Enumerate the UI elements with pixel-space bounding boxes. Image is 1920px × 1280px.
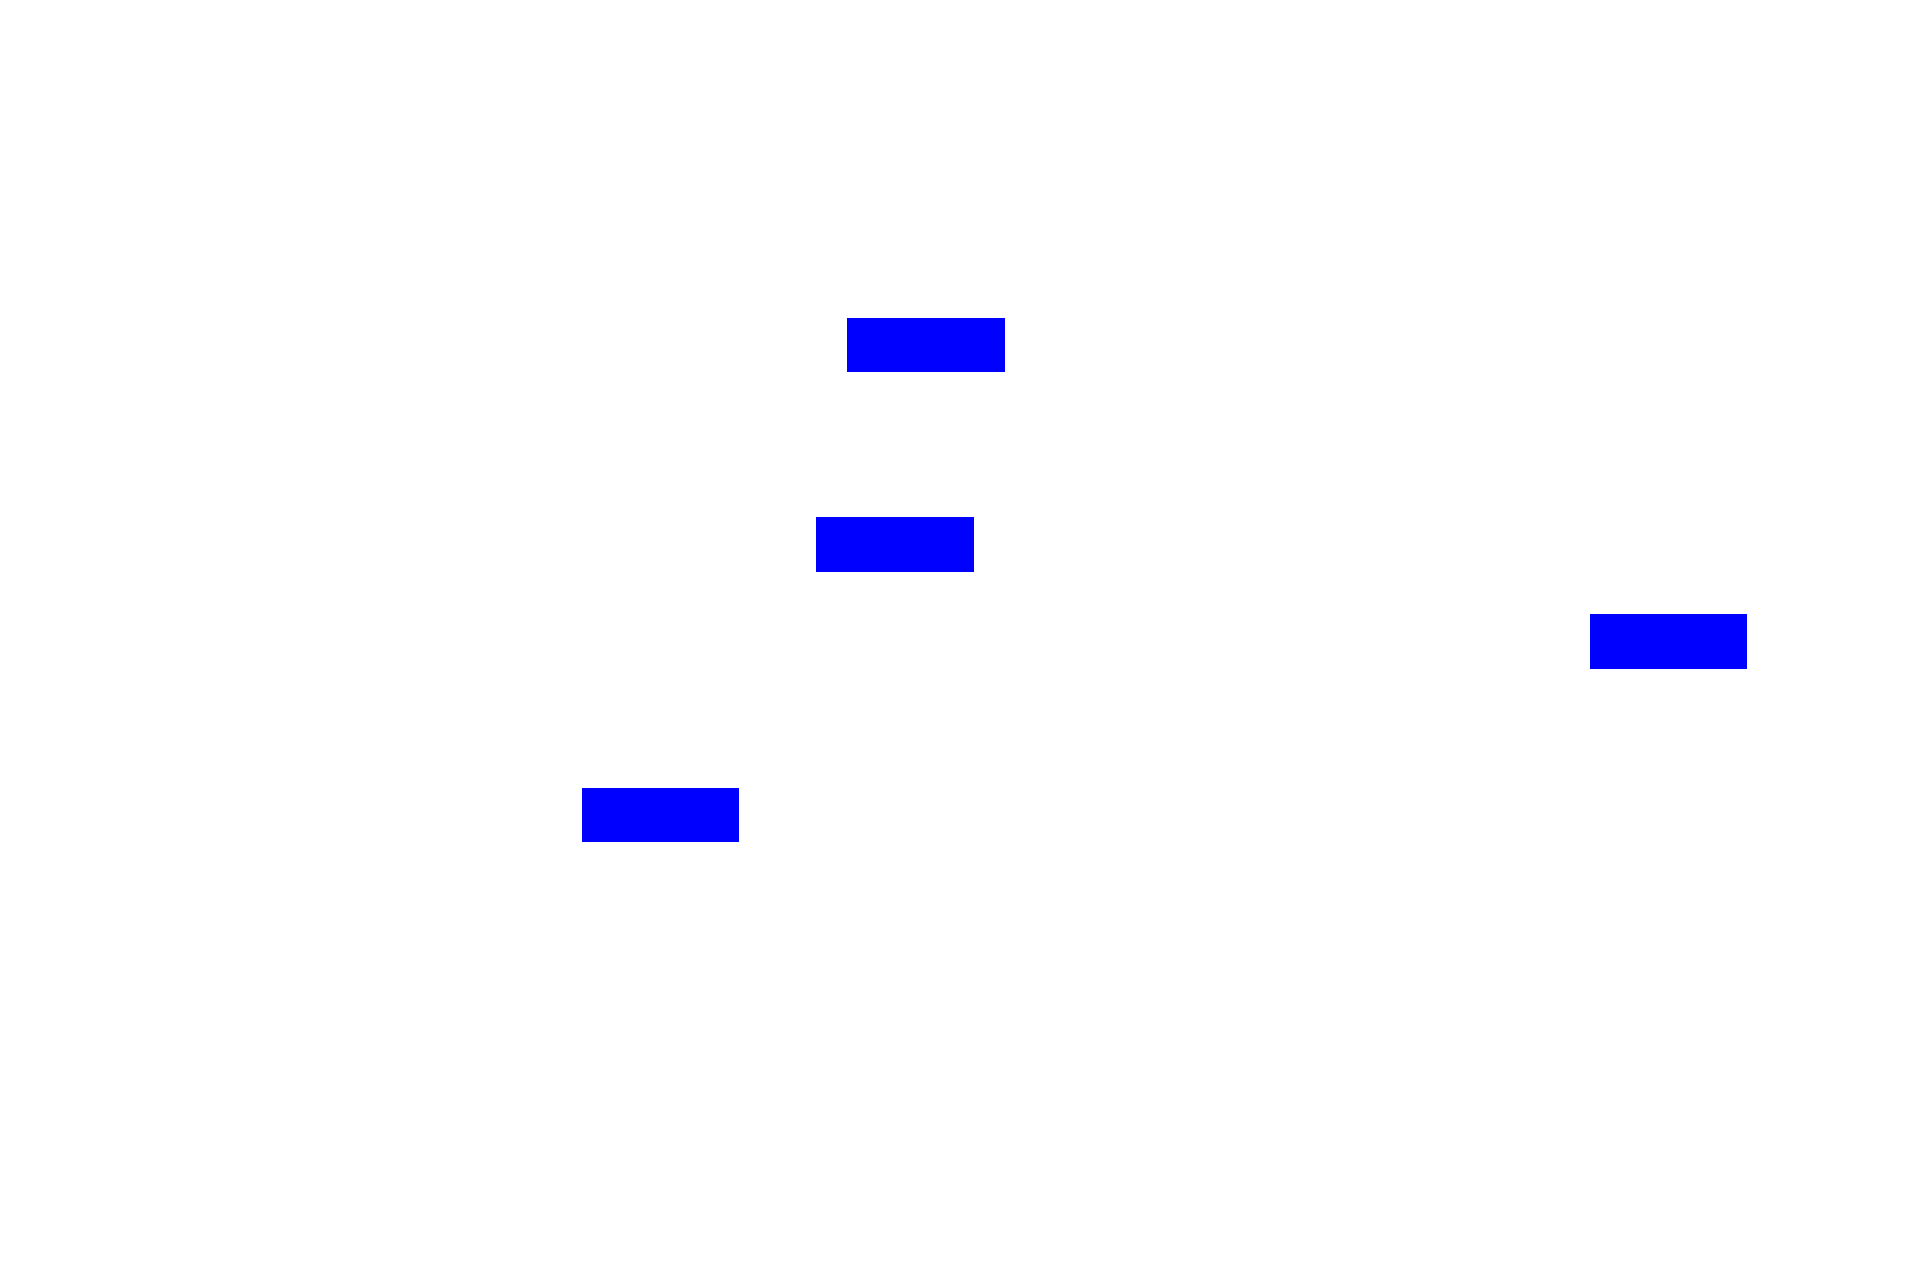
blue rectangle 1 (upper middle) — [847, 318, 1005, 372]
blue rectangle 4 (lower left) — [582, 788, 739, 842]
blue rectangle 3 (right) — [1590, 614, 1747, 669]
blue rectangle 2 (middle) — [816, 517, 974, 572]
